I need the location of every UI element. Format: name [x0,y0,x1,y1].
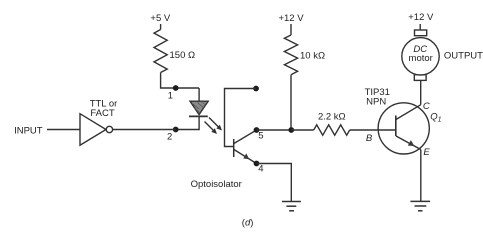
svg-text:2: 2 [167,131,172,142]
wire R2 bottom to junction [290,75,292,130]
svg-text:+5 V: +5 V [150,13,170,24]
inverter bubble [106,126,112,132]
LED D1 (optoisolator emitter) [190,101,208,114]
phototransistor Q base bar [233,139,235,157]
transistor Q1 collector lead [396,105,421,120]
transistor Q1 emitter arrowhead [408,140,415,146]
wire +12V to R2 top [290,24,292,35]
inverter U1 triangle [80,114,106,146]
svg-text:B: B [366,133,373,144]
svg-text:Q1: Q1 [430,112,441,124]
pin 1 dot [173,85,179,91]
svg-text:motor: motor [409,53,433,64]
wire R3 to base B [350,129,396,131]
svg-text:OUTPUT: OUTPUT [444,50,483,61]
wire pin5 to junction [257,129,292,131]
svg-text:FACT: FACT [90,108,114,119]
resistor R1 150 ohm [154,30,167,73]
svg-text:1: 1 [168,90,173,101]
motor bottom terminal box [414,75,426,81]
wire pin6 to phototransistor base [225,89,257,147]
wire pin4 to ground [257,164,292,202]
svg-text:NPN: NPN [366,96,386,107]
junction node dot [288,127,294,133]
motor M1 circle [402,38,439,75]
ground (emitter side) [410,201,430,210]
wire LED cathode down to pin2 [176,116,199,129]
wire +12V to motor top [419,24,421,30]
pin 6 dot (base, unconnected) [253,86,259,92]
light arrow 2 [205,122,218,135]
svg-text:C: C [423,101,430,112]
wire pin1 corner down to LED anode [198,88,200,101]
LED cathode bar [189,115,208,117]
svg-text:+12 V: +12 V [408,12,434,23]
resistor R2 10k [284,35,297,75]
wire +5V to R1 top [160,24,162,30]
svg-text:5: 5 [258,130,263,141]
svg-text:(d): (d) [242,218,254,229]
motor top terminal box [415,30,427,36]
transistor Q1 circle [378,103,429,154]
phototransistor collector lead [234,130,257,144]
transistor Q1 base bar [395,116,397,137]
svg-text:10 kΩ: 10 kΩ [300,51,325,62]
svg-text:4: 4 [258,164,263,175]
wire R1 bottom to pin1 [161,73,199,89]
svg-text:Optoisolator: Optoisolator [191,179,242,190]
pin 2 dot [173,127,179,133]
wire inverter output to pin2 [113,129,176,131]
phototransistor emitter arrowhead [243,153,249,159]
pin 4 dot [254,161,260,167]
svg-text:INPUT: INPUT [14,125,43,136]
wire INPUT to inverter [47,129,80,131]
svg-text:150 Ω: 150 Ω [170,50,196,61]
svg-text:2.2 kΩ: 2.2 kΩ [318,111,346,122]
wire collector to motor [420,80,422,105]
ground (optoisolator side) [282,202,301,211]
resistor R3 2.2k [314,125,350,135]
light arrow 1 [209,118,222,131]
phototransistor emitter lead [234,150,257,164]
svg-text:+12 V: +12 V [278,13,304,24]
svg-text:E: E [423,147,430,158]
wire junction to R3 [291,129,314,131]
pin 5 dot [254,127,260,133]
transistor Q1 emitter lead [396,136,421,150]
wire emitter to ground [420,150,422,202]
